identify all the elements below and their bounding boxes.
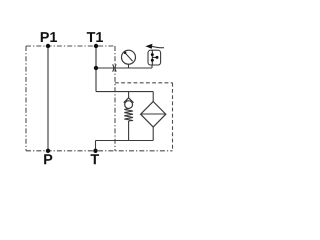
gauge needle <box>125 53 133 62</box>
check valve stem bottom <box>128 121 130 141</box>
wire bottom manifold run <box>96 140 154 142</box>
test point stem <box>151 65 153 68</box>
filter stem top <box>152 92 154 102</box>
label P <box>44 154 52 164</box>
filter stem bottom <box>152 127 154 141</box>
label T1 <box>87 32 103 42</box>
node P1 <box>46 44 50 48</box>
pressure gauge stem <box>128 64 130 68</box>
label P1 <box>41 32 57 42</box>
check valve stem top <box>128 92 130 99</box>
wire junction to gauge/test point <box>96 67 152 69</box>
junction node on T1 branch <box>94 66 98 70</box>
test point body <box>148 50 161 65</box>
pressure gauge <box>122 50 136 64</box>
filter element <box>141 102 166 128</box>
test point cap arrow <box>145 44 152 49</box>
wire T elbow <box>95 141 97 151</box>
wire P1 to P <box>47 46 49 151</box>
quick coupling on boundary <box>113 64 117 71</box>
node T <box>93 149 97 153</box>
check valve ball <box>125 101 133 109</box>
filter media line <box>141 113 166 115</box>
enclosure outer boundary (dash-dot box) <box>26 46 173 151</box>
node T1 <box>94 44 98 48</box>
node P <box>46 149 50 153</box>
check valve seat <box>124 98 134 103</box>
label T <box>91 154 99 164</box>
filter sub-enclosure (dashed box) <box>115 83 173 151</box>
wire top manifold run <box>96 91 153 93</box>
test point internals <box>151 50 153 65</box>
check valve spring <box>124 108 133 121</box>
wire T1 down to junction and elbow <box>95 46 97 92</box>
